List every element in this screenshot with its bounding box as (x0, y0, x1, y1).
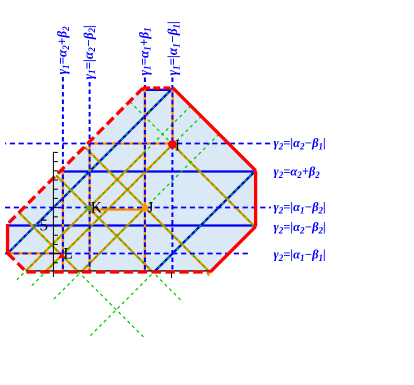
svg-text:γ2=|α2−β2|: γ2=|α2−β2| (274, 220, 326, 235)
svg-text:γ1=α1+β1: γ1=α1+β1 (136, 27, 152, 75)
svg-text:γ2=α2+β2: γ2=α2+β2 (274, 165, 321, 180)
svg-text:γ2=|α1−β1|: γ2=|α1−β1| (274, 248, 326, 263)
svg-text:L: L (63, 246, 72, 263)
svg-text:I: I (175, 137, 180, 154)
svg-text:5: 5 (40, 216, 49, 235)
svg-text:γ2=|α2−β1|: γ2=|α2−β1| (274, 136, 326, 151)
svg-text:γ1=|α1−β1|: γ1=|α1−β1| (165, 21, 181, 75)
svg-text:J: J (147, 200, 153, 217)
svg-text:γ1=|α2−β2|: γ1=|α2−β2| (81, 25, 97, 79)
svg-text:γ2=|α1−β2|: γ2=|α1−β2| (274, 200, 326, 215)
svg-text:K: K (91, 200, 103, 217)
svg-text:γ1=α2+β2: γ1=α2+β2 (55, 26, 71, 75)
